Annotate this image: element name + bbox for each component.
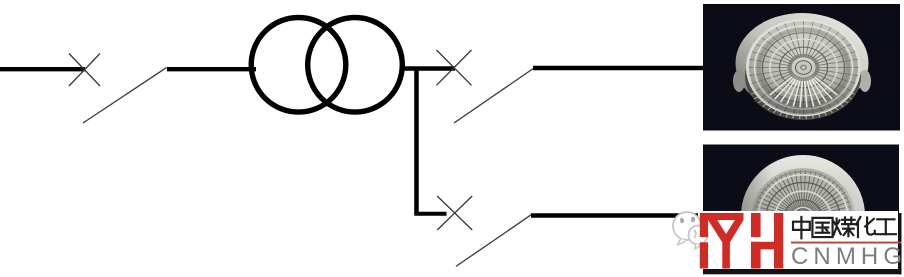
- wire W3: transformer secondary lead: [400, 66, 455, 70]
- photo 1: vertical shade overlay: [748, 20, 860, 115]
- watermark logo: panel shadow right: [898, 213, 902, 274]
- switch S3 contact cross: [437, 196, 472, 230]
- switch S2 open blade: [454, 68, 534, 123]
- photo 1: hub dark surround: [790, 56, 818, 80]
- switch S2 contact cross: [437, 50, 472, 85]
- watermark: wechat stamp icon: [673, 212, 708, 249]
- photo 1: luminaire outer shell dome: [736, 13, 869, 113]
- photo 1: left mounting ear: [733, 70, 745, 92]
- watermark logo: letter M left bar: [700, 213, 708, 237]
- photo 1: lower fins: [751, 90, 855, 119]
- photo 2: side shading: [741, 155, 865, 277]
- photo: floodlight luminaire 1 (background): [703, 4, 900, 131]
- switch S1 open blade: [83, 68, 167, 123]
- watermark logo: letter H crossbar: [751, 242, 774, 250]
- transformer T1 secondary winding: [308, 18, 403, 113]
- watermark logo: letter Y stem: [722, 242, 730, 269]
- watermark logo: letter H right bar: [774, 213, 783, 269]
- photo: floodlight luminaire 2 (background): [703, 145, 899, 271]
- watermark logo: letter H left bar: [751, 213, 761, 237]
- watermark logo: panel shadow bottom: [703, 269, 902, 274]
- wire W7: lower branch to luminaire 2: [531, 213, 704, 217]
- switch S3 open blade: [456, 214, 532, 266]
- watermark logo: letter Y top bar: [708, 213, 744, 220]
- watermark logo: red underline: [791, 242, 902, 244]
- watermark logo: chinese text 中国煤化工: [793, 217, 810, 238]
- photo 1: lower fin disc: [745, 32, 861, 120]
- wire W2: to transformer primary: [167, 67, 256, 71]
- photo 2: luminaire shell rim: [741, 155, 865, 277]
- transformer T1 primary winding: [251, 18, 346, 113]
- photo 2: reflector face: [751, 168, 855, 268]
- watermark logo: white panel: [698, 211, 898, 269]
- wire W1: incoming feeder: [0, 67, 85, 71]
- photo 1: right mounting ear: [859, 70, 871, 92]
- watermark logo: letter Y vee and notch: [708, 220, 744, 242]
- photo 1: reflector face: [748, 20, 860, 115]
- photo 1: hub: [796, 61, 812, 75]
- wire W6: lower branch stub: [414, 212, 446, 216]
- switch S1 contact cross: [69, 54, 100, 87]
- wire W5: top branch to luminaire 1: [533, 66, 704, 70]
- photo 1: bottom bright fan: [813, 75, 837, 95]
- svg-text:CNMHG: CNMHG: [791, 243, 902, 270]
- wire W4: vertical branch drop: [414, 67, 419, 215]
